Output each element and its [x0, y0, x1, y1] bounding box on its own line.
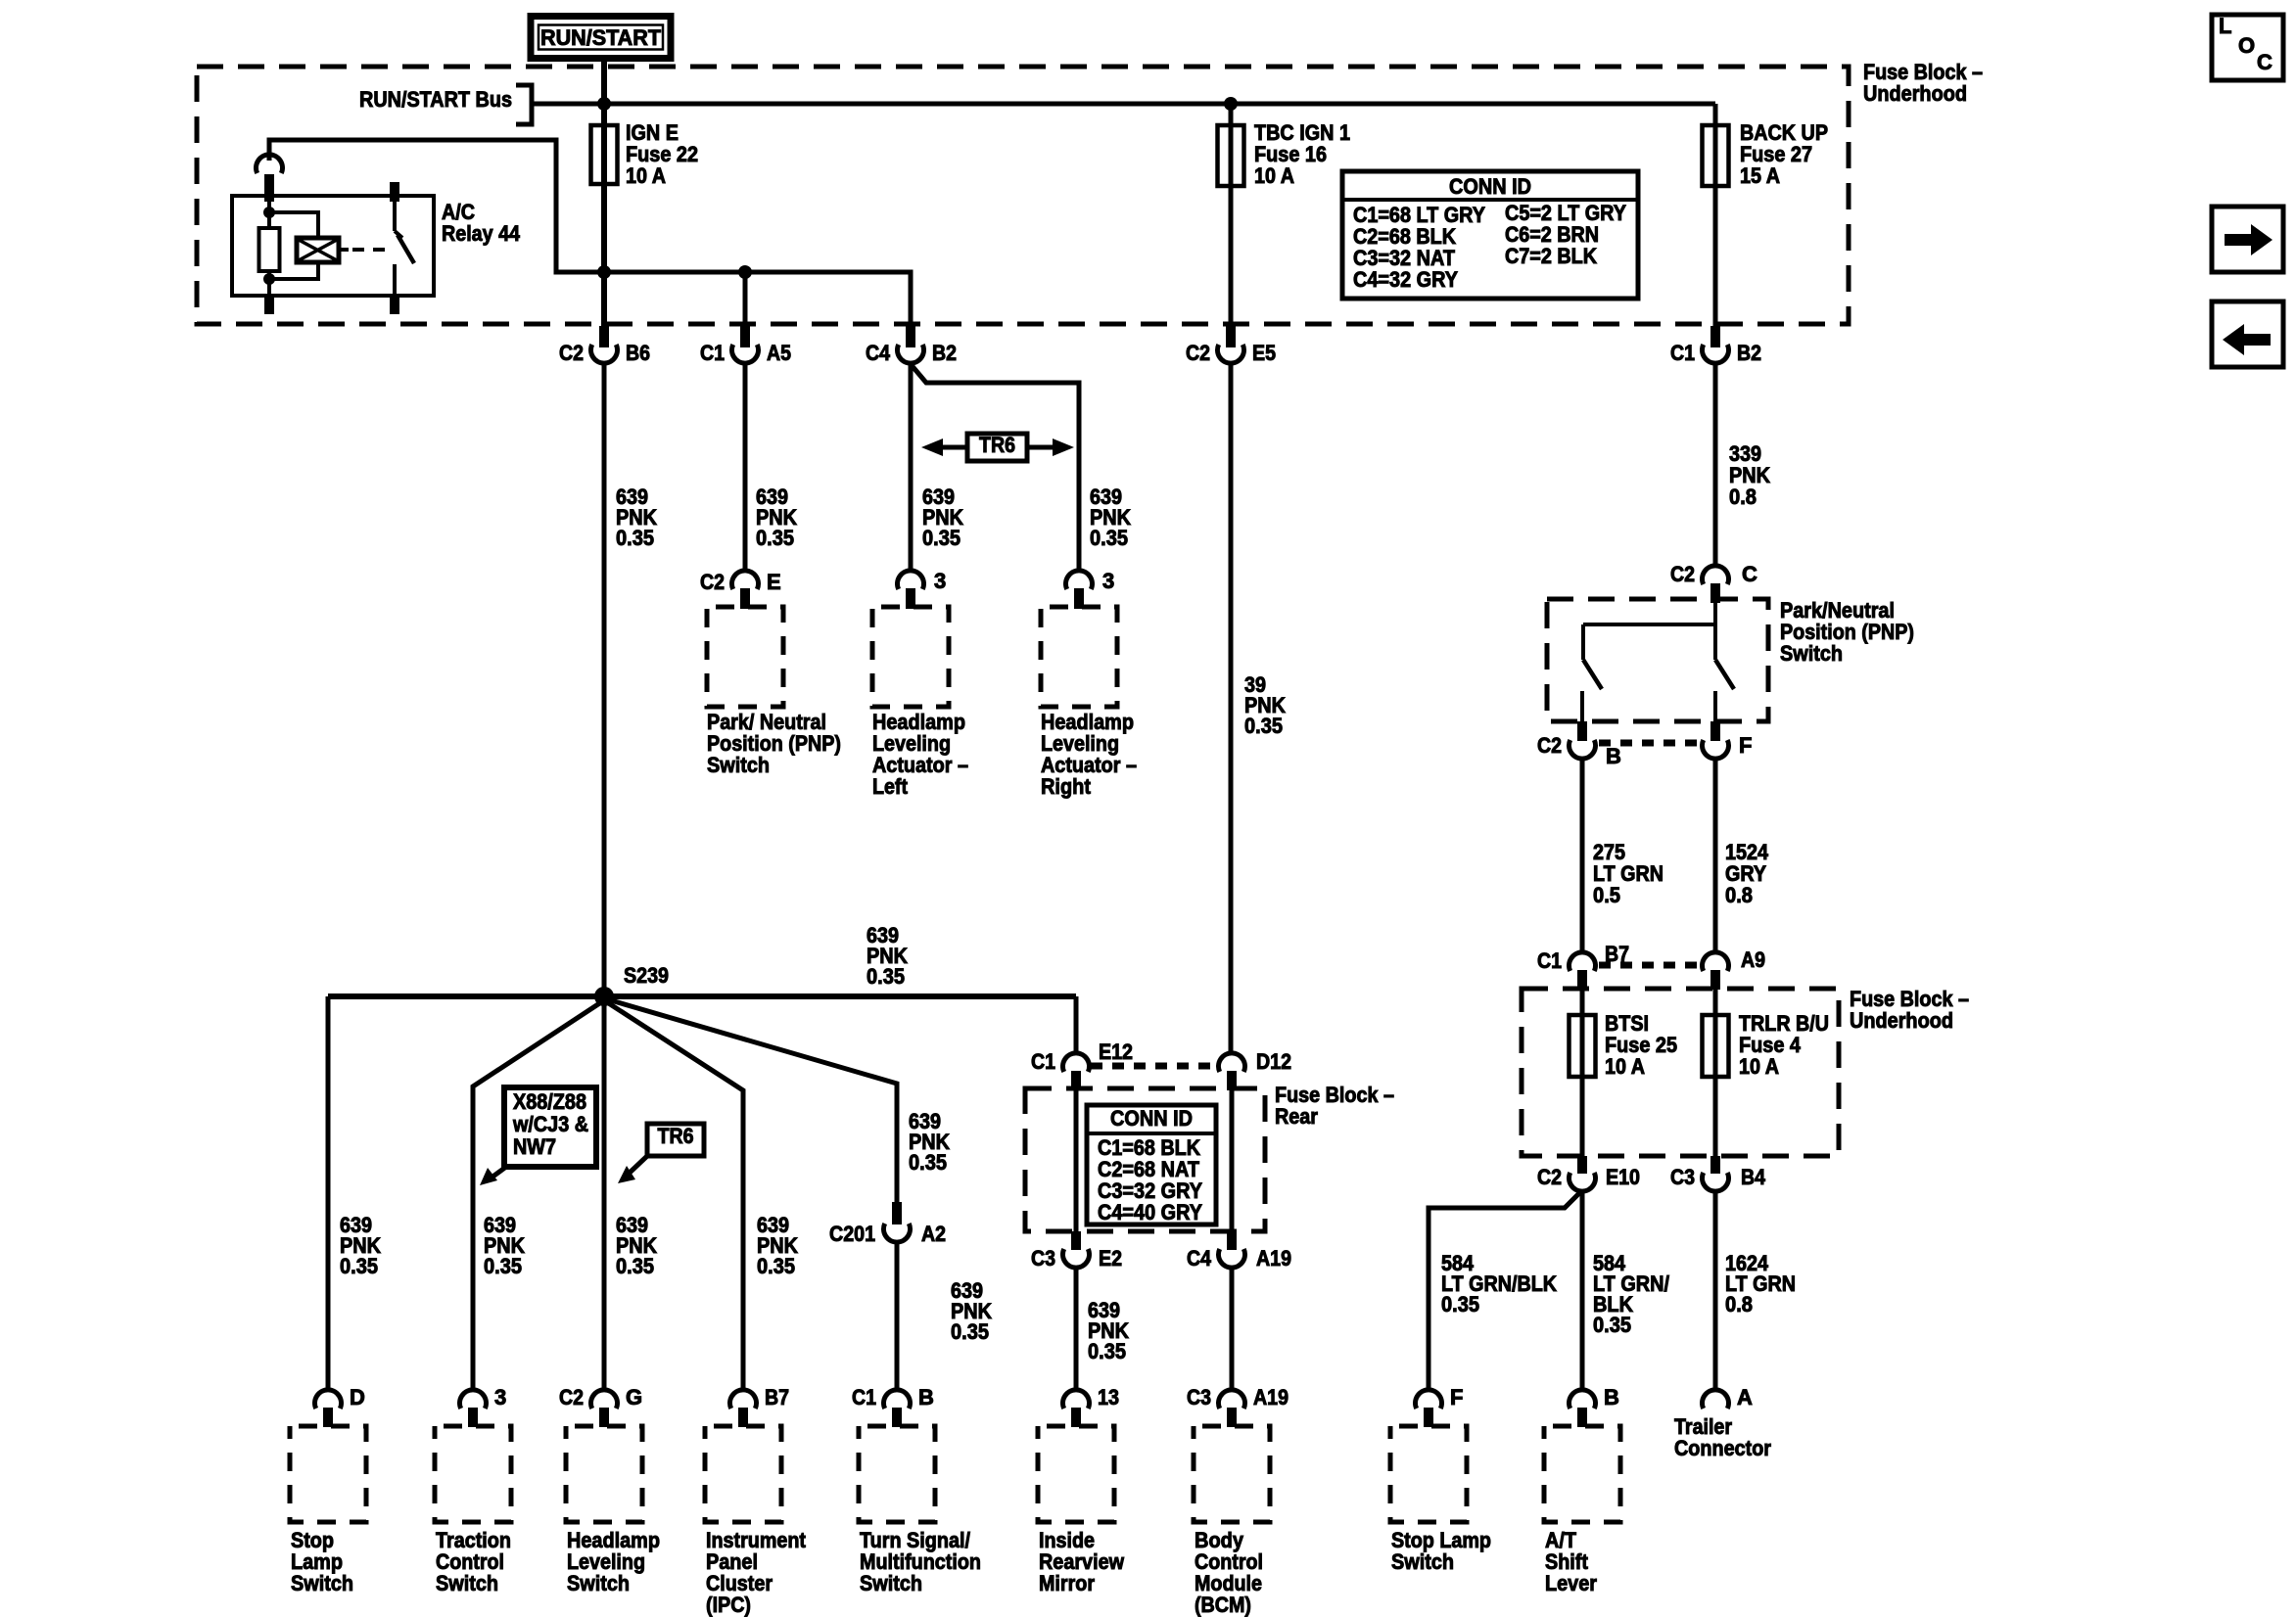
label A/C Relay 44 — [442, 200, 521, 246]
svg-text:w/CJ3 &: w/CJ3 & — [512, 1112, 588, 1136]
connector C2 pin E5 — [1186, 326, 1276, 365]
label Trailer Connector — [1674, 1414, 1771, 1460]
connector row dotted link E12-D12 — [1091, 1063, 1217, 1070]
svg-text:D: D — [350, 1385, 365, 1409]
svg-text:C4=32 GRY: C4=32 GRY — [1353, 267, 1458, 292]
connector C2 pin C (PNP) — [1670, 562, 1757, 603]
connector pin B (A/T shift lever) — [1570, 1385, 1619, 1427]
svg-text:0.35: 0.35 — [756, 526, 794, 550]
wire relay feed loop — [269, 140, 911, 345]
svg-text:Switch: Switch — [1780, 641, 1843, 666]
fuse F16 TBC IGN 1 — [1218, 120, 1351, 188]
wire rear block D12-A19 — [1230, 1090, 1235, 1231]
svg-text:B: B — [1606, 744, 1621, 768]
connector pin B7 (instrument panel cluster IPC) — [730, 1385, 790, 1427]
svg-text:B7: B7 — [765, 1385, 789, 1409]
wire 1524 GRY — [1713, 757, 1718, 953]
wire 275 LT GRN — [1580, 757, 1585, 953]
svg-text:B2: B2 — [932, 341, 957, 365]
svg-text:Underhood: Underhood — [1850, 1008, 1953, 1033]
connector pin A9 — [1702, 947, 1765, 990]
svg-text:Switch: Switch — [436, 1571, 498, 1595]
connector C201 pin A2 — [829, 1202, 946, 1246]
junction bus / TBC IGN 1 — [1224, 97, 1238, 111]
wire (A19 to BCM) — [1230, 1266, 1235, 1391]
svg-text:10 A: 10 A — [626, 163, 666, 188]
junction coil bottom — [263, 273, 275, 285]
component box body control module BCM — [1194, 1426, 1270, 1522]
component box Headlamp Leveling Actuator - Left — [872, 607, 949, 707]
connector C4 pin B2 — [866, 326, 957, 365]
svg-text:0.35: 0.35 — [757, 1254, 795, 1278]
svg-text:10 A: 10 A — [1739, 1054, 1779, 1079]
svg-text:C3: C3 — [1187, 1385, 1211, 1409]
svg-text:C2: C2 — [559, 341, 584, 365]
wire S239 distribution bus — [328, 993, 1076, 999]
label 584 LT GRN/BLK 0.35 — [1441, 1251, 1557, 1317]
connector pin D12 — [1219, 1049, 1292, 1090]
connector C1 pin E12 — [1031, 1039, 1133, 1090]
svg-text:Switch: Switch — [1391, 1549, 1454, 1574]
connector C3 pin B4 — [1670, 1156, 1766, 1191]
svg-text:Mirror: Mirror — [1039, 1571, 1095, 1595]
relay coil resistor — [259, 202, 280, 314]
RUN/START Bus bracket — [516, 85, 532, 124]
svg-text:A9: A9 — [1741, 947, 1765, 972]
connector C1 pin B7 — [1537, 942, 1629, 990]
component box turn signal/multifunction switch — [859, 1426, 935, 1522]
label Fuse Block - Rear — [1275, 1083, 1394, 1129]
connector pin A19 (body control module BCM) — [1187, 1385, 1289, 1427]
label 639 PNK 0.35 (right actuator) — [1090, 485, 1131, 550]
svg-text:E12: E12 — [1099, 1039, 1133, 1064]
adaptation tag TR6 (headlamp switch) — [618, 1124, 704, 1183]
wire 639 PNK (B6 to S239) — [602, 361, 607, 996]
wire 639 PNK (B2 to left actuator) — [909, 361, 914, 573]
svg-text:Right: Right — [1041, 774, 1092, 799]
svg-text:CONN ID: CONN ID — [1110, 1106, 1193, 1131]
svg-text:13: 13 — [1098, 1385, 1119, 1409]
svg-text:C1: C1 — [700, 341, 725, 365]
wire 339 PNK (B2 to PNP C) — [1713, 361, 1718, 567]
connector pin 3 (traction control switch) — [460, 1385, 507, 1427]
label 1624 LT GRN 0.8 — [1725, 1251, 1796, 1317]
svg-text:B: B — [1604, 1385, 1619, 1409]
svg-text:B2: B2 — [1737, 341, 1761, 365]
svg-text:0.35: 0.35 — [1441, 1292, 1479, 1317]
svg-text:RUN/START Bus: RUN/START Bus — [359, 87, 512, 112]
wire to instrument panel cluster — [604, 1000, 743, 1391]
component box A/T shift lever — [1544, 1426, 1620, 1522]
splice S239 — [594, 963, 669, 1006]
adaptation tag X88/Z88 w/CJ3 & NW7 — [480, 1087, 596, 1185]
relay actuation dashed link — [339, 248, 390, 252]
wire IGN E feed — [601, 60, 607, 345]
fuse F27 BACK UP — [1703, 120, 1829, 188]
svg-text:3: 3 — [494, 1385, 506, 1409]
svg-text:0.35: 0.35 — [1244, 714, 1283, 738]
svg-text:B: B — [918, 1385, 934, 1409]
svg-text:E: E — [767, 570, 781, 594]
label A/T shift lever — [1545, 1528, 1597, 1595]
svg-text:RUN/START: RUN/START — [540, 25, 662, 50]
label headlamp leveling switch — [567, 1528, 660, 1595]
connector C4 pin A19 — [1187, 1231, 1291, 1270]
wire rear block E12-E2 — [1074, 1090, 1079, 1231]
label 639 PNK 0.35 (turn signal upper) — [909, 1109, 950, 1175]
svg-text:B4: B4 — [1741, 1165, 1766, 1189]
connector pin B (turn signal/multifunction switch) — [852, 1385, 934, 1427]
label 639 PNK 0.35 (B6) — [616, 485, 657, 550]
svg-text:C1: C1 — [1670, 341, 1695, 365]
junction relay loop / A5 drop — [738, 265, 752, 279]
svg-text:C2: C2 — [1186, 341, 1210, 365]
junction coil top — [263, 207, 275, 218]
svg-text:3: 3 — [934, 569, 946, 593]
connector pin 13 (inside rearview mirror) — [1063, 1385, 1120, 1427]
label 639 PNK 0.35 (mirror) — [1088, 1298, 1129, 1363]
label traction control switch — [436, 1528, 511, 1595]
wire 1624 LT GRN (to trailer connector) — [1713, 1189, 1718, 1391]
wire to turn signal switch (upper) — [604, 998, 897, 1202]
label 639 PNK 0.35 (IPC) — [757, 1213, 798, 1278]
node RUN/START Bus label — [359, 87, 512, 112]
svg-text:E2: E2 — [1099, 1246, 1122, 1270]
svg-text:15 A: 15 A — [1740, 163, 1780, 188]
wire A5 drop — [743, 272, 748, 345]
label 639 PNK 0.35 (S239 right) — [867, 923, 908, 989]
svg-text:Switch: Switch — [567, 1571, 630, 1595]
svg-text:A2: A2 — [921, 1222, 946, 1246]
svg-text:C4: C4 — [866, 341, 891, 365]
svg-text:C2: C2 — [1537, 1165, 1562, 1189]
svg-text:A19: A19 — [1256, 1246, 1291, 1270]
svg-text:0.35: 0.35 — [867, 964, 905, 989]
adaptation tag TR6 (actuators) — [921, 433, 1074, 461]
fuse block - underhood outline — [197, 67, 1849, 324]
svg-text:0.5: 0.5 — [1593, 883, 1620, 907]
connector pin 3 (right actuator) — [1066, 569, 1115, 609]
svg-text:(IPC): (IPC) — [706, 1593, 751, 1617]
svg-text:0.35: 0.35 — [922, 526, 961, 550]
nav arrow left box — [2212, 301, 2283, 367]
svg-text:NW7: NW7 — [513, 1134, 556, 1159]
connector row dotted link B7-A9 — [1599, 962, 1699, 969]
svg-text:C2: C2 — [1670, 562, 1695, 586]
label 639 PNK 0.35 (left actuator) — [922, 485, 963, 550]
svg-text:Switch: Switch — [860, 1571, 922, 1595]
fuse block - rear outline — [1025, 1088, 1265, 1231]
svg-text:C: C — [1742, 562, 1757, 586]
connector C2 pin B6 — [559, 326, 650, 365]
wire 584 LT GRN/BLK (to A/T shift lever) — [1580, 1189, 1585, 1391]
wire 639 PNK (E2 to mirror) — [1074, 1266, 1079, 1391]
label 339 PNK 0.8 — [1729, 441, 1770, 509]
svg-text:S239: S239 — [624, 963, 669, 988]
svg-text:0.35: 0.35 — [340, 1254, 378, 1278]
svg-text:L: L — [2219, 14, 2231, 38]
svg-text:C1: C1 — [852, 1385, 876, 1409]
connector pin G (headlamp leveling switch) — [559, 1385, 642, 1427]
svg-text:CONN ID: CONN ID — [1449, 174, 1531, 199]
component box Headlamp Leveling Actuator - Right — [1041, 607, 1117, 707]
svg-text:0.35: 0.35 — [484, 1254, 522, 1278]
label instrument panel cluster IPC — [706, 1528, 807, 1617]
svg-text:Rear: Rear — [1275, 1104, 1318, 1129]
svg-text:C4=40 GRY: C4=40 GRY — [1098, 1200, 1202, 1224]
fuse F25 BTSI — [1570, 1011, 1678, 1079]
relay solenoid coil symbol — [269, 212, 339, 279]
label Park/Neutral Position (PNP) Switch — [1780, 598, 1914, 666]
wire E12 drop — [1074, 996, 1079, 1054]
svg-text:Switch: Switch — [291, 1571, 353, 1595]
svg-text:Switch: Switch — [707, 753, 770, 777]
label 275 LT GRN 0.5 — [1593, 840, 1663, 907]
connector C3 pin E2 — [1031, 1231, 1122, 1270]
component box Park/Neutral Position (PNP) Switch — [1547, 599, 1768, 721]
label 639 PNK 0.35 (traction) — [484, 1213, 525, 1278]
label 639 PNK 0.35 (turn signal lower) — [951, 1278, 992, 1344]
wire 639 PNK (C201 to turn signal) — [895, 1240, 900, 1391]
svg-text:A19: A19 — [1253, 1385, 1289, 1409]
svg-text:0.35: 0.35 — [951, 1319, 989, 1344]
component box Park/Neutral Position Switch (row2) — [707, 607, 783, 707]
label Fuse Block - Underhood — [1863, 60, 1983, 106]
svg-text:E5: E5 — [1252, 341, 1276, 365]
svg-text:O: O — [2238, 33, 2255, 58]
label 39 PNK 0.35 — [1244, 672, 1286, 738]
label Headlamp Leveling Actuator - Right — [1041, 710, 1137, 799]
label Headlamp Leveling Actuator - Left — [872, 710, 968, 799]
svg-text:G: G — [626, 1385, 642, 1409]
svg-text:0.35: 0.35 — [1593, 1313, 1631, 1337]
relay switch contacts — [390, 182, 414, 314]
svg-text:X88/Z88: X88/Z88 — [513, 1089, 586, 1114]
svg-text:A: A — [1737, 1385, 1753, 1409]
svg-text:E10: E10 — [1606, 1165, 1640, 1189]
label 639 PNK 0.35 (headlamp switch) — [616, 1213, 657, 1278]
wire to stop lamp switch (left drop) — [326, 996, 331, 1391]
svg-text:C3: C3 — [1670, 1165, 1695, 1189]
wire to traction control switch — [473, 1000, 604, 1391]
connector C2 pin B (PNP bottom) — [1537, 721, 1621, 768]
label 639 PNK 0.35 (A5) — [756, 485, 797, 550]
component box stop lamp switch (right) — [1390, 1426, 1467, 1522]
svg-text:C2: C2 — [1537, 733, 1562, 758]
svg-text:C201: C201 — [829, 1222, 875, 1246]
label 1524 GRY 0.8 — [1725, 840, 1769, 907]
svg-text:C2: C2 — [700, 570, 725, 594]
svg-text:TR6: TR6 — [658, 1124, 694, 1148]
power feed RUN/START box — [531, 17, 671, 59]
junction bus / IGN E — [597, 97, 611, 111]
svg-text:0.35: 0.35 — [1090, 526, 1128, 550]
connector C2 pin E10 — [1537, 1156, 1640, 1191]
svg-text:TR6: TR6 — [979, 433, 1015, 457]
svg-text:C2: C2 — [559, 1385, 584, 1409]
svg-text:A5: A5 — [767, 341, 791, 365]
svg-text:B6: B6 — [626, 341, 650, 365]
wire 639 PNK branch (B2 to right actuator) — [911, 364, 1079, 573]
connector C2 pin E (PNP switch) — [700, 570, 781, 609]
component box inside rearview mirror — [1038, 1426, 1114, 1522]
legend LOC box — [2212, 14, 2283, 80]
svg-text:0.8: 0.8 — [1729, 485, 1757, 509]
fuse F4 TRLR B/U — [1703, 1011, 1830, 1079]
svg-text:Underhood: Underhood — [1863, 81, 1967, 106]
label body control module BCM — [1195, 1528, 1263, 1617]
fuse block - underhood (lower) outline — [1522, 989, 1839, 1156]
svg-text:0.8: 0.8 — [1725, 883, 1753, 907]
svg-text:(BCM): (BCM) — [1195, 1593, 1251, 1617]
svg-text:0.35: 0.35 — [1088, 1339, 1126, 1363]
wire 639 PNK (A5 to PNP) — [743, 361, 748, 573]
label inside rearview mirror — [1039, 1528, 1125, 1595]
label 639 PNK 0.35 (stop lamp) — [340, 1213, 381, 1278]
wire to headlamp leveling switch — [602, 996, 607, 1391]
connector pin A (trailer connector) — [1702, 1385, 1753, 1409]
svg-text:Left: Left — [872, 774, 909, 799]
component box stop lamp switch — [290, 1426, 366, 1522]
wire RUN/START bus — [532, 102, 1715, 107]
svg-text:3: 3 — [1102, 569, 1114, 593]
wire TBC IGN 1 feed — [1229, 104, 1234, 345]
svg-text:D12: D12 — [1256, 1049, 1291, 1074]
svg-text:F: F — [1739, 733, 1752, 758]
svg-text:0.35: 0.35 — [909, 1150, 947, 1175]
connector pin F (stop lamp switch (right)) — [1416, 1385, 1464, 1427]
svg-text:F: F — [1450, 1385, 1463, 1409]
connector pin D (stop lamp switch) — [315, 1385, 365, 1427]
svg-text:C7=2 BLK: C7=2 BLK — [1505, 244, 1597, 268]
svg-text:10 A: 10 A — [1605, 1054, 1645, 1079]
CONN ID table (underhood) — [1342, 171, 1638, 299]
wire BACK UP feed — [1713, 104, 1718, 345]
wire 39 PNK (E5 to D12) — [1229, 361, 1234, 1054]
fuse F22 IGN E — [591, 120, 699, 188]
label stop lamp switch — [291, 1528, 353, 1595]
junction relay loop / IGN E — [597, 265, 611, 279]
connector pin F (PNP bottom) — [1702, 721, 1752, 759]
connector pin 3 (left actuator) — [898, 569, 947, 609]
svg-text:Lever: Lever — [1545, 1571, 1597, 1595]
label Park/ Neutral Position (PNP) Switch — [707, 710, 841, 777]
svg-text:C1: C1 — [1031, 1049, 1055, 1074]
component box instrument panel cluster IPC — [705, 1426, 781, 1522]
svg-text:Connector: Connector — [1674, 1436, 1771, 1460]
PNP switch internal contacts — [1582, 603, 1734, 721]
component box headlamp leveling switch — [566, 1426, 642, 1522]
connector row dotted link B-F — [1599, 740, 1699, 747]
relay U44 A/C Relay 44 box — [232, 196, 434, 296]
connector C1 pin B2 — [1670, 326, 1761, 365]
connector C1 pin A5 — [700, 326, 791, 365]
svg-text:10 A: 10 A — [1254, 163, 1294, 188]
wire 584 LT GRN/BLK (to stop lamp switch) — [1429, 1192, 1580, 1391]
label Fuse Block - Underhood (lower) — [1850, 987, 1969, 1033]
svg-text:0.35: 0.35 — [616, 526, 654, 550]
CONN ID table (rear) — [1087, 1105, 1216, 1224]
svg-text:0.8: 0.8 — [1725, 1292, 1753, 1317]
label stop lamp switch (right) — [1391, 1528, 1491, 1574]
svg-text:C: C — [2257, 50, 2273, 74]
svg-text:C1: C1 — [1537, 948, 1562, 973]
wire through BTSI fuse — [1580, 990, 1585, 1156]
connector relay pin (coil +) — [256, 155, 282, 202]
svg-text:0.35: 0.35 — [616, 1254, 654, 1278]
svg-text:C3: C3 — [1031, 1246, 1055, 1270]
nav arrow right box — [2212, 207, 2283, 272]
label turn signal/multifunction switch — [860, 1528, 981, 1595]
wire through TRLR B/U fuse — [1713, 990, 1718, 1156]
svg-text:Relay 44: Relay 44 — [442, 221, 521, 246]
svg-text:C4: C4 — [1187, 1246, 1212, 1270]
label 584 LT GRN/ BLK 0.35 — [1593, 1251, 1669, 1337]
component box traction control switch — [435, 1426, 511, 1522]
